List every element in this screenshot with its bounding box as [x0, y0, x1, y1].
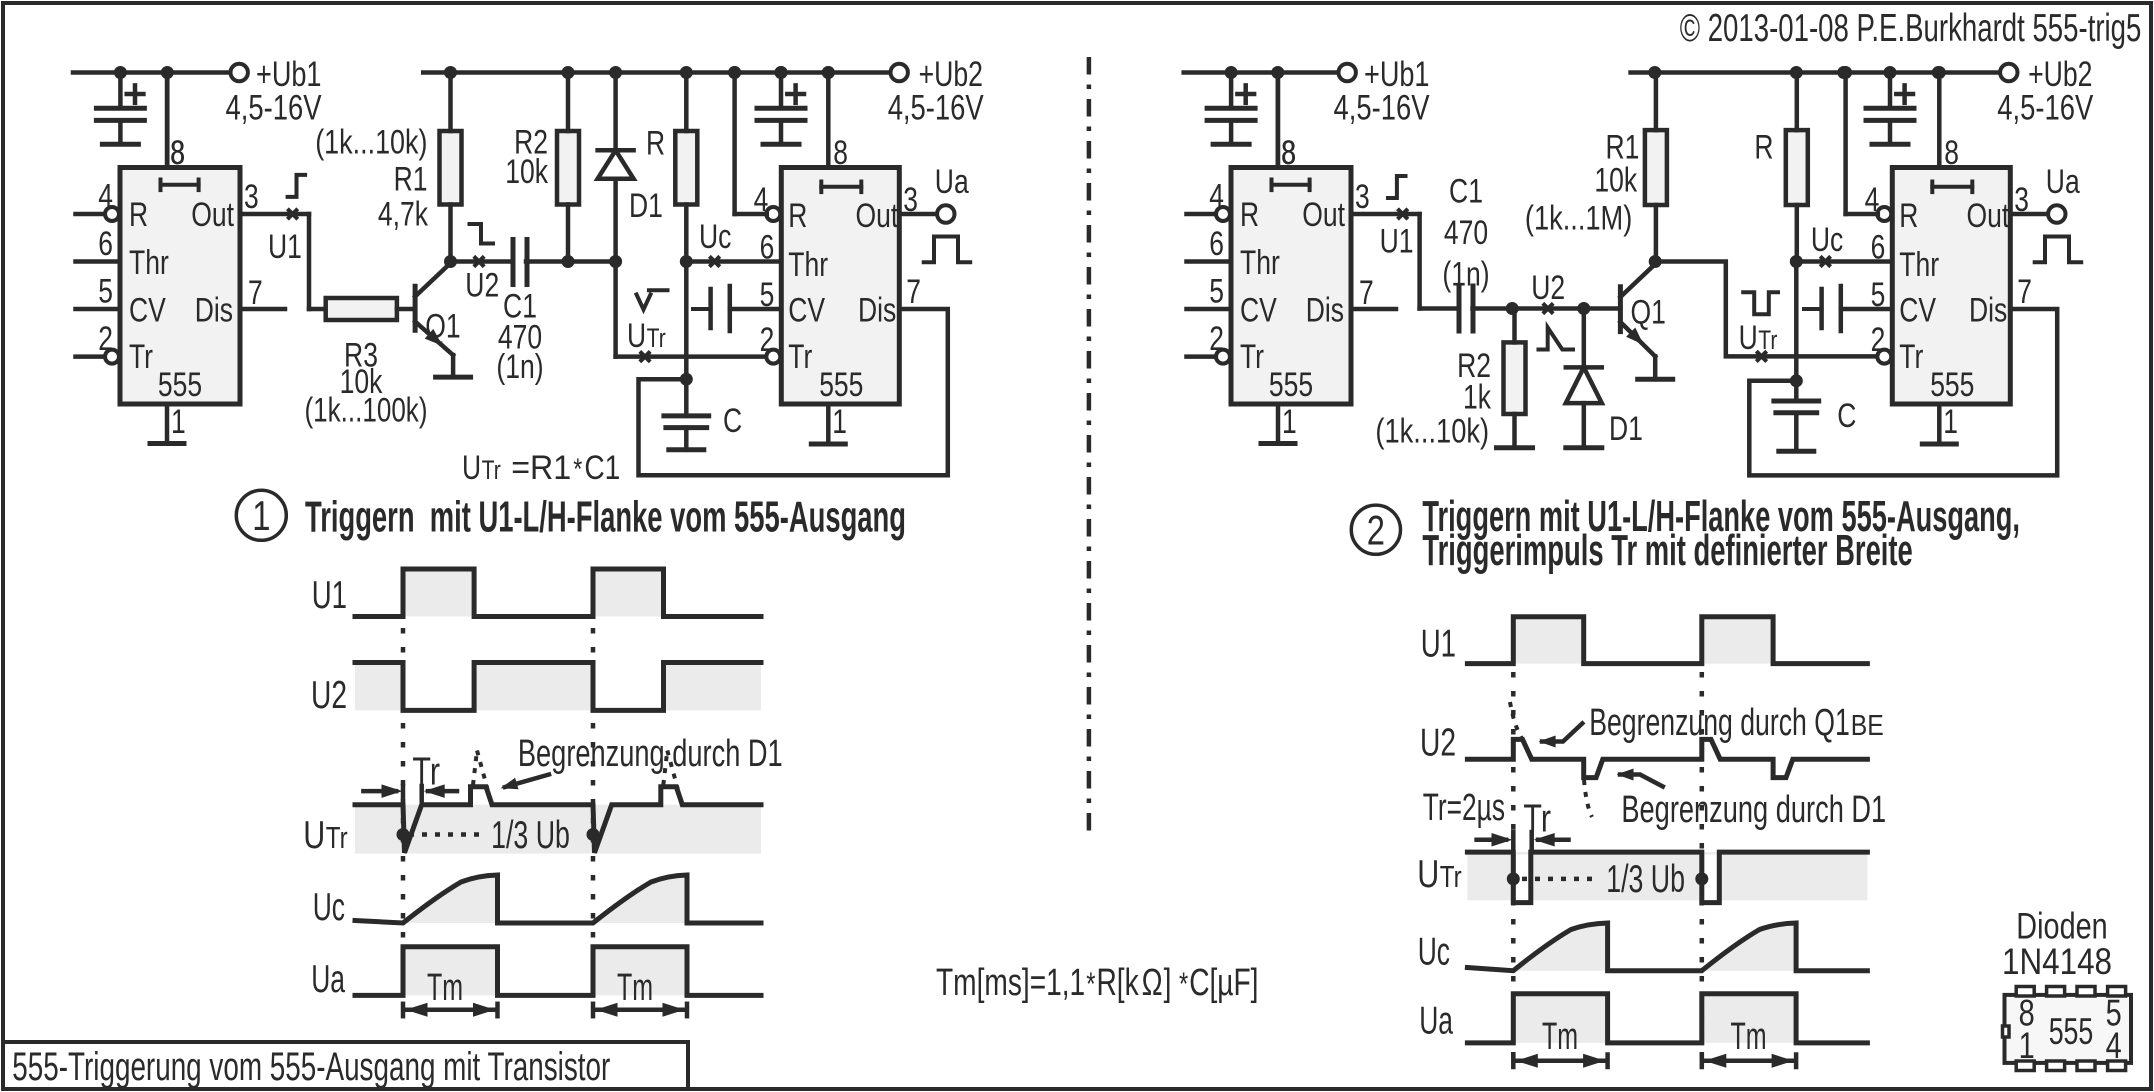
svg-text:C1: C1 [1449, 173, 1483, 211]
svg-text:6: 6 [760, 229, 775, 267]
svg-text:U1: U1 [268, 228, 302, 266]
svg-text:D1: D1 [1609, 410, 1643, 448]
svg-text:8: 8 [1944, 134, 1959, 172]
svg-text:=R1: =R1 [511, 449, 571, 487]
svg-text:C[µF]: C[µF] [1189, 962, 1258, 1004]
svg-text:Dis: Dis [1306, 292, 1344, 330]
svg-text:Out: Out [856, 197, 899, 235]
svg-text:Uc: Uc [1418, 931, 1450, 974]
svg-text:7: 7 [1359, 274, 1374, 312]
svg-text:]: ] [1164, 962, 1172, 1004]
svg-text:Dis: Dis [1969, 292, 2007, 330]
svg-text:5: 5 [760, 276, 775, 314]
svg-text:1N4148: 1N4148 [2002, 941, 2112, 982]
svg-text:Tm[ms]=1,1: Tm[ms]=1,1 [936, 962, 1085, 1004]
svg-text:CV: CV [129, 292, 166, 330]
svg-text:Q1: Q1 [425, 308, 460, 346]
svg-text:Ua: Ua [2046, 163, 2080, 201]
svg-text:Ua: Ua [311, 958, 345, 1001]
svg-text:6: 6 [1209, 225, 1224, 263]
svg-text:10k: 10k [505, 153, 549, 191]
svg-text:Tm: Tm [1542, 1016, 1578, 1058]
svg-text:4: 4 [754, 181, 769, 219]
svg-text:8: 8 [170, 134, 185, 172]
svg-text:D1: D1 [629, 187, 663, 225]
svg-text:555: 555 [158, 366, 202, 404]
svg-text:Uc: Uc [1811, 221, 1843, 259]
svg-text:5: 5 [1209, 273, 1224, 311]
svg-text:(1k...1M): (1k...1M) [1525, 200, 1632, 238]
svg-text:3: 3 [1355, 178, 1370, 216]
svg-text:7: 7 [248, 274, 263, 312]
svg-text:U2: U2 [1420, 722, 1456, 765]
svg-text:Tr: Tr [1440, 859, 1462, 894]
svg-text:(1k...10k): (1k...10k) [1375, 412, 1489, 450]
svg-text:4,5-16V: 4,5-16V [226, 89, 323, 128]
svg-text:Ua: Ua [1419, 1000, 1453, 1043]
svg-text:4,7k: 4,7k [378, 196, 429, 234]
svg-text:Triggerimpuls Tr mit definiert: Triggerimpuls Tr mit definierter Breite [1422, 526, 1912, 575]
svg-text:4,5-16V: 4,5-16V [1997, 89, 2094, 128]
svg-text:© 2013-01-08 P.E.Burkhardt 555: © 2013-01-08 P.E.Burkhardt 555-trig5 [1680, 7, 2142, 50]
svg-text:*: * [1086, 966, 1095, 1002]
svg-text:Tr: Tr [1240, 338, 1264, 376]
svg-text:R: R [1899, 197, 1918, 235]
svg-text:C: C [723, 402, 742, 440]
svg-text:3: 3 [244, 178, 259, 216]
svg-text:470: 470 [1444, 214, 1488, 252]
svg-text:U: U [303, 814, 325, 857]
svg-text:Tr: Tr [647, 323, 666, 353]
svg-text:Uc: Uc [699, 218, 731, 256]
svg-text:U1: U1 [1421, 623, 1456, 666]
svg-text:2: 2 [1209, 320, 1224, 358]
svg-text:4,5-16V: 4,5-16V [1334, 89, 1431, 128]
svg-text:U: U [627, 317, 646, 355]
svg-text:U: U [1417, 853, 1439, 896]
svg-text:R: R [1240, 196, 1259, 234]
svg-text:Out: Out [191, 196, 234, 234]
svg-text:R: R [1754, 129, 1773, 167]
svg-text:Triggern mit U1-L/H-Flanke vo: Triggern mit U1-L/H-Flanke vom 555-Ausga… [305, 493, 906, 542]
svg-text:Tr: Tr [1523, 797, 1551, 840]
svg-text:8: 8 [833, 134, 848, 172]
svg-text:R: R [129, 196, 148, 234]
svg-text:1: 1 [171, 403, 186, 441]
svg-text:Thr: Thr [788, 246, 828, 284]
svg-text:1: 1 [1282, 403, 1297, 441]
svg-text:5: 5 [1871, 276, 1886, 314]
svg-text:6: 6 [1871, 229, 1886, 267]
svg-text:1: 1 [832, 403, 847, 441]
svg-text:4: 4 [1865, 181, 1880, 219]
svg-text:R[k: R[k [1096, 962, 1139, 1004]
svg-text:4,5-16V: 4,5-16V [888, 89, 985, 128]
svg-text:2: 2 [760, 321, 775, 359]
svg-text:Thr: Thr [1240, 244, 1280, 282]
svg-text:5: 5 [98, 273, 113, 311]
svg-text:Out: Out [1967, 197, 2010, 235]
svg-text:U1: U1 [312, 574, 347, 617]
svg-text:7: 7 [2017, 273, 2032, 311]
svg-text:555: 555 [1930, 366, 1974, 404]
svg-text:R: R [646, 125, 665, 163]
svg-text:C: C [1837, 397, 1856, 435]
svg-text:Begrenzung durch Q1: Begrenzung durch Q1 [1589, 702, 1850, 744]
svg-text:U1: U1 [1380, 223, 1414, 261]
svg-text:4: 4 [1209, 178, 1224, 216]
svg-text:Thr: Thr [129, 244, 169, 282]
svg-text:CV: CV [788, 292, 825, 330]
svg-text:1: 1 [2019, 1025, 2035, 1066]
svg-text:Tm: Tm [1730, 1016, 1766, 1058]
svg-text:Tr: Tr [129, 338, 153, 376]
svg-text:Tr=2µs: Tr=2µs [1423, 787, 1505, 829]
svg-text:R1: R1 [394, 160, 428, 198]
svg-text:Tm: Tm [427, 967, 463, 1009]
svg-text:1: 1 [1943, 403, 1958, 441]
svg-text:R: R [788, 197, 807, 235]
svg-text:Tr: Tr [788, 338, 812, 376]
svg-text:2: 2 [1367, 507, 1385, 554]
svg-text:U2: U2 [1531, 269, 1565, 307]
svg-text:(1k...100k): (1k...100k) [305, 392, 428, 430]
svg-text:Tr: Tr [326, 820, 348, 855]
svg-text:4: 4 [2106, 1025, 2122, 1066]
svg-text:U2: U2 [465, 267, 499, 305]
svg-text:4: 4 [98, 178, 113, 216]
svg-text:Tr: Tr [1758, 325, 1777, 355]
svg-text:1/3 Ub: 1/3 Ub [1606, 858, 1685, 901]
svg-text:Uc: Uc [313, 886, 345, 929]
svg-text:Ua: Ua [935, 163, 969, 201]
svg-text:U: U [1739, 319, 1758, 357]
svg-text:555: 555 [1269, 366, 1313, 404]
svg-text:(1k...10k): (1k...10k) [315, 123, 427, 161]
svg-text:Dis: Dis [195, 292, 233, 330]
svg-text:Tr: Tr [1899, 338, 1923, 376]
svg-text:2: 2 [1871, 321, 1886, 359]
svg-text:Tm: Tm [617, 967, 653, 1009]
svg-text:Tr: Tr [412, 751, 440, 794]
svg-text:U2: U2 [311, 674, 347, 717]
svg-text:*: * [573, 453, 582, 486]
svg-text:CV: CV [1240, 292, 1277, 330]
svg-text:1: 1 [252, 492, 270, 539]
svg-text:BE: BE [1851, 710, 1884, 742]
svg-text:Q1: Q1 [1631, 293, 1666, 331]
svg-text:10k: 10k [1594, 162, 1638, 200]
svg-text:Ω: Ω [1142, 962, 1163, 1004]
svg-text:1/3 Ub: 1/3 Ub [491, 814, 570, 857]
svg-text:Dis: Dis [858, 292, 896, 330]
svg-text:C1: C1 [584, 449, 620, 487]
svg-text:(1n): (1n) [496, 348, 543, 386]
svg-text:CV: CV [1899, 292, 1936, 330]
svg-text:Begrenzung durch D1: Begrenzung durch D1 [518, 733, 783, 775]
svg-text:(1n): (1n) [1442, 256, 1489, 294]
svg-text:Tr: Tr [482, 455, 501, 485]
svg-text:2: 2 [98, 320, 113, 358]
svg-text:555-Triggerung vom 555-Ausgang: 555-Triggerung vom 555-Ausgang mit Trans… [12, 1045, 610, 1089]
svg-text:Begrenzung durch D1: Begrenzung durch D1 [1621, 789, 1886, 831]
svg-text:555: 555 [2049, 1011, 2094, 1052]
svg-text:1k: 1k [1463, 379, 1492, 417]
svg-text:U: U [462, 449, 481, 487]
svg-text:Thr: Thr [1899, 246, 1939, 284]
svg-text:*: * [1179, 966, 1188, 1002]
svg-text:7: 7 [906, 273, 921, 311]
svg-text:8: 8 [1281, 134, 1296, 172]
svg-text:555: 555 [819, 366, 863, 404]
svg-text:Out: Out [1302, 196, 1345, 234]
svg-text:6: 6 [98, 225, 113, 263]
